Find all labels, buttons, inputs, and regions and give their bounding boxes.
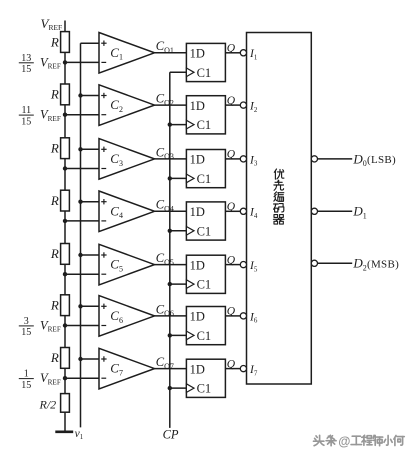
svg-text:Q: Q bbox=[227, 358, 236, 370]
svg-text:1D: 1D bbox=[190, 310, 205, 324]
svg-text:15: 15 bbox=[21, 380, 31, 391]
value label 11/15 VREF at tap2 bbox=[19, 105, 61, 127]
net label CO1 bbox=[156, 39, 174, 55]
wire: clock bus to FF7 C1 input bbox=[170, 387, 187, 389]
node tap2 junction on ladder bbox=[63, 113, 67, 117]
svg-text:Q: Q bbox=[227, 254, 236, 266]
wire: FF2 Q output to encoder input I2 bbox=[225, 104, 240, 106]
svg-text:Q: Q bbox=[227, 149, 236, 161]
wire: C5 output to flip-flop 5 1D input bbox=[155, 264, 187, 266]
node junction clock bus row 3 bbox=[168, 176, 172, 180]
node junction v1 bus row 5 bbox=[78, 253, 82, 257]
node junction v1 bus row 7 bbox=[78, 357, 82, 361]
encoder caption char ma (code) bbox=[274, 204, 284, 212]
node junction clock bus row 4 bbox=[168, 229, 172, 233]
pin label I5 bbox=[249, 260, 258, 273]
wire: ladder tap2 to C2 minus input bbox=[65, 114, 99, 116]
wire: C6 output to flip-flop 6 1D input bbox=[155, 315, 187, 317]
wire: C1 output to flip-flop 1 1D input bbox=[155, 52, 187, 54]
op-amp comparator C1 bbox=[99, 33, 155, 74]
encoder caption char bian (encode) bbox=[274, 192, 284, 202]
ground bbox=[55, 430, 73, 433]
op-amp comparator C5 bbox=[99, 244, 155, 285]
resistor R2 (value R) bbox=[50, 84, 70, 105]
wire: ladder tap5 to C5 minus input bbox=[65, 273, 99, 275]
svg-text:1D: 1D bbox=[190, 47, 205, 61]
pin label Q of FF3 bbox=[227, 149, 236, 161]
svg-text:Q: Q bbox=[227, 306, 236, 318]
pin label Q of FF2 bbox=[227, 95, 236, 107]
node tap7 junction on ladder bbox=[63, 376, 67, 380]
wire: FF4 Q output to encoder input I4 bbox=[225, 210, 240, 212]
wire: FF3 Q output to encoder input I3 bbox=[225, 158, 240, 160]
node junction v1 bus row 3 bbox=[78, 147, 82, 151]
wire: ladder tap4 to C4 minus input bbox=[65, 220, 99, 222]
svg-text:C1: C1 bbox=[197, 66, 212, 80]
svg-text:R: R bbox=[50, 34, 59, 49]
wire: v1 bus to C1 plus input bbox=[81, 42, 100, 44]
flip-flop FF7 (1D/C1 D-latch) bbox=[186, 359, 225, 397]
encoder caption char you (excellent) bbox=[274, 169, 284, 179]
pin label I1 bbox=[249, 48, 258, 61]
svg-text:C1: C1 bbox=[197, 329, 212, 343]
inverting bubble at encoder output D1 bbox=[311, 208, 317, 214]
node tap6 junction on ladder bbox=[63, 323, 67, 327]
resistor R6 (value R) bbox=[50, 295, 70, 316]
wire: v1 bus to C4 plus input bbox=[81, 201, 100, 203]
pin label Q of FF6 bbox=[227, 306, 236, 318]
svg-text:Q: Q bbox=[227, 95, 236, 107]
svg-text:15: 15 bbox=[21, 64, 31, 75]
wire: encoder output D0 bbox=[318, 158, 353, 160]
svg-text:R: R bbox=[50, 246, 59, 261]
net label CO2 bbox=[156, 92, 174, 108]
wire: clock bus to FF4 C1 input bbox=[170, 230, 187, 232]
inverting bubble at encoder output D0 bbox=[311, 156, 317, 162]
inverting bubble at encoder input I1 bbox=[240, 50, 246, 56]
wire: reference ladder vertical (VREF to ground) bbox=[64, 21, 66, 432]
node tap5 junction on ladder bbox=[63, 272, 67, 276]
node junction v1 bus row 6 bbox=[78, 304, 82, 308]
output label D1 bbox=[352, 204, 366, 221]
net label CO5 bbox=[156, 251, 174, 267]
resistor R7 (value R) bbox=[50, 348, 70, 369]
flip-flop FF2 (1D/C1 D-latch) bbox=[186, 96, 225, 134]
wire: C2 output to flip-flop 2 1D input bbox=[155, 104, 187, 106]
node junction v1 bus row 4 bbox=[78, 200, 82, 204]
svg-text:R: R bbox=[50, 298, 59, 313]
wire: FF6 Q output to encoder input I6 bbox=[225, 315, 240, 317]
svg-text:@: @ bbox=[338, 434, 350, 448]
op-amp comparator C7 bbox=[99, 348, 155, 389]
svg-text:C1: C1 bbox=[197, 224, 212, 238]
svg-text:1D: 1D bbox=[190, 258, 205, 272]
svg-text:15: 15 bbox=[21, 116, 31, 127]
svg-text:15: 15 bbox=[21, 327, 31, 338]
svg-text:CP: CP bbox=[163, 428, 179, 442]
value label 1/15 VREF at tap7 bbox=[19, 369, 61, 391]
wire: clock bus to FF3 C1 input bbox=[170, 177, 187, 179]
net label CO6 bbox=[156, 302, 174, 318]
flip-flop FF6 (1D/C1 D-latch) bbox=[186, 307, 225, 345]
op-amp comparator C4 bbox=[99, 191, 155, 232]
svg-text:C1: C1 bbox=[197, 172, 212, 186]
pin label Q of FF7 bbox=[227, 358, 236, 370]
svg-text:1D: 1D bbox=[190, 362, 205, 376]
resistor R5 (value R) bbox=[50, 244, 70, 265]
pin label I2 bbox=[249, 101, 258, 114]
node junction v1 bus row 2 bbox=[78, 93, 82, 97]
wire: v1 analog input bus vertical bbox=[80, 43, 82, 427]
resistor R3 (value R) bbox=[50, 138, 70, 159]
flip-flop FF4 (1D/C1 D-latch) bbox=[186, 202, 225, 240]
node junction clock bus row 5 bbox=[168, 282, 172, 286]
inverting bubble at encoder input I3 bbox=[240, 156, 246, 162]
wire: ladder tap1 to C1 minus input bbox=[65, 61, 99, 63]
svg-text:C1: C1 bbox=[197, 382, 212, 396]
wire: FF1 Q output to encoder input I1 bbox=[225, 52, 240, 54]
pin label I6 bbox=[249, 311, 258, 324]
inverting bubble at encoder input I2 bbox=[240, 102, 246, 108]
wire: v1 bus to C6 plus input bbox=[81, 305, 100, 307]
priority encoder U1 box bbox=[247, 33, 312, 385]
flip-flop FF1 (1D/C1 D-latch) bbox=[186, 43, 225, 81]
svg-text:R: R bbox=[50, 350, 59, 365]
node v1 (analog input) bbox=[75, 428, 84, 441]
flip-flop FF3 (1D/C1 D-latch) bbox=[186, 150, 225, 188]
pin label I3 bbox=[249, 154, 258, 167]
svg-text:1: 1 bbox=[24, 369, 29, 380]
inverting bubble at encoder input I4 bbox=[240, 208, 246, 214]
wire: clock bus to FF1 C1 input bbox=[170, 71, 187, 73]
node tap3 junction on ladder bbox=[63, 166, 67, 170]
wire: encoder output D1 bbox=[318, 210, 353, 212]
op-amp comparator C6 bbox=[99, 296, 155, 337]
svg-text:R: R bbox=[50, 87, 59, 102]
wire: C4 output to flip-flop 4 1D input bbox=[155, 210, 187, 212]
wire: CP clock bus vertical bbox=[169, 72, 171, 428]
svg-text:(MSB): (MSB) bbox=[367, 259, 399, 271]
node tap4 junction on ladder bbox=[63, 219, 67, 223]
inverting bubble at encoder input I6 bbox=[240, 313, 246, 319]
node junction clock bus row 7 bbox=[168, 386, 172, 390]
pin label Q of FF4 bbox=[227, 201, 236, 213]
wire: ladder tap7 to C7 minus input bbox=[65, 377, 99, 379]
pin label Q of FF1 bbox=[227, 43, 236, 55]
wire: clock bus to FF2 C1 input bbox=[170, 124, 187, 126]
watermark Toutiao @engineer-xiaohe bbox=[314, 434, 405, 448]
svg-text:C1: C1 bbox=[197, 278, 212, 292]
wire: FF5 Q output to encoder input I5 bbox=[225, 264, 240, 266]
svg-text:3: 3 bbox=[24, 316, 29, 327]
svg-text:C1: C1 bbox=[197, 118, 212, 132]
net label CO4 bbox=[156, 198, 174, 214]
svg-text:1D: 1D bbox=[190, 99, 205, 113]
node VREF (reference voltage top) bbox=[41, 16, 63, 32]
net label CO3 bbox=[156, 145, 174, 161]
svg-text:Q: Q bbox=[227, 201, 236, 213]
wire: v1 bus to C5 plus input bbox=[81, 254, 100, 256]
value label 13/15 VREF at tap1 bbox=[19, 53, 61, 75]
svg-text:13: 13 bbox=[21, 53, 31, 64]
inverting bubble at encoder input I5 bbox=[240, 262, 246, 268]
wire: ladder tap6 to C6 minus input bbox=[65, 325, 99, 327]
resistor R1 (value R) bbox=[50, 32, 70, 53]
svg-text:11: 11 bbox=[21, 105, 31, 116]
output label D2 (MSB) bbox=[352, 256, 399, 273]
svg-text:R/2: R/2 bbox=[39, 398, 57, 412]
wire: v1 bus to C2 plus input bbox=[81, 95, 100, 97]
node CP (clock input) bbox=[163, 428, 179, 442]
wire: v1 bus to C3 plus input bbox=[81, 148, 100, 150]
svg-text:Q: Q bbox=[227, 43, 236, 55]
wire: ladder tap3 to C3 minus input bbox=[65, 168, 99, 170]
svg-text:1D: 1D bbox=[190, 153, 205, 167]
node tap1 junction on ladder bbox=[63, 60, 67, 64]
wire: clock bus to FF6 C1 input bbox=[170, 334, 187, 336]
svg-text:R: R bbox=[50, 141, 59, 156]
resistor R8 (value R/2) bbox=[39, 394, 70, 413]
op-amp comparator C2 bbox=[99, 85, 155, 126]
wire: encoder output D2 bbox=[318, 262, 353, 264]
pin label Q of FF5 bbox=[227, 254, 236, 266]
net label CO7 bbox=[156, 355, 174, 371]
value label 3/15 VREF at tap6 bbox=[19, 316, 61, 338]
node junction clock bus row 2 bbox=[168, 122, 172, 126]
node junction clock bus row 6 bbox=[168, 333, 172, 337]
svg-text:R: R bbox=[50, 193, 59, 208]
resistor R4 (value R) bbox=[50, 190, 70, 211]
encoder caption char qi (device) bbox=[273, 215, 284, 225]
wire: C3 output to flip-flop 3 1D input bbox=[155, 158, 187, 160]
flip-flop FF5 (1D/C1 D-latch) bbox=[186, 255, 225, 293]
output label D0 (LSB) bbox=[352, 151, 396, 168]
wire: v1 bus to C7 plus input bbox=[81, 358, 100, 360]
pin label I4 bbox=[249, 207, 258, 220]
svg-text:1D: 1D bbox=[190, 205, 205, 219]
inverting bubble at encoder input I7 bbox=[240, 366, 246, 372]
wire: FF7 Q output to encoder input I7 bbox=[225, 368, 240, 370]
encoder caption char xian (first) bbox=[274, 180, 284, 190]
op-amp comparator C3 bbox=[99, 139, 155, 180]
wire: clock bus to FF5 C1 input bbox=[170, 283, 187, 285]
inverting bubble at encoder output D2 bbox=[311, 260, 317, 266]
wire: C7 output to flip-flop 7 1D input bbox=[155, 368, 187, 370]
pin label I7 bbox=[249, 364, 258, 377]
svg-text:(LSB): (LSB) bbox=[367, 154, 396, 166]
